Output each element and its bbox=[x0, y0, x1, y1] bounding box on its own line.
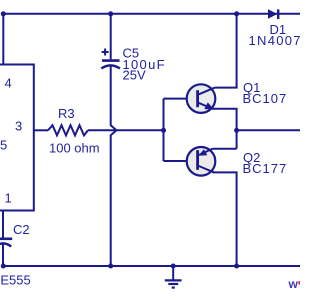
wire Q2 emitter lead bbox=[213, 148, 237, 150]
diode D1 1N4007 bbox=[268, 9, 278, 19]
svg-text:3: 3 bbox=[15, 119, 22, 134]
svg-text:1: 1 bbox=[5, 191, 12, 206]
ground symbol bbox=[172, 266, 174, 280]
node top-left bbox=[1, 11, 6, 16]
wire C2 vertical from pin 1 bbox=[2, 211, 4, 239]
svg-text:w: w bbox=[288, 277, 299, 291]
wire pin 3 lead bbox=[34, 129, 48, 131]
svg-text:BC107: BC107 bbox=[243, 91, 288, 106]
node Q1 collector top bbox=[234, 11, 239, 16]
wire bottom rail bbox=[3, 265, 300, 267]
node C5 bottom bbox=[108, 264, 113, 269]
wire R3 to base node bbox=[88, 129, 164, 131]
wire output node to right bbox=[237, 129, 300, 131]
svg-text:25V: 25V bbox=[123, 68, 146, 83]
node bottom left bbox=[1, 264, 6, 269]
svg-text:NE555: NE555 bbox=[0, 273, 31, 288]
svg-text:C2: C2 bbox=[13, 222, 30, 237]
IC U1 NE555 box bbox=[0, 65, 34, 211]
wire Q1 emitter to node bbox=[212, 109, 237, 149]
svg-text:4: 4 bbox=[5, 76, 12, 91]
svg-text:100 ohm: 100 ohm bbox=[49, 141, 100, 156]
svg-text:R3: R3 bbox=[58, 106, 75, 121]
node base bus bbox=[161, 128, 166, 133]
wire base bus vertical bbox=[163, 99, 165, 161]
node ground bbox=[171, 264, 176, 269]
node emitter output bbox=[234, 128, 239, 133]
wire C5 vertical with junction kink bbox=[110, 14, 112, 60]
svg-text:BC177: BC177 bbox=[243, 161, 288, 176]
svg-text:1N4007: 1N4007 bbox=[249, 33, 301, 48]
transistor Q2 BC177 (PNP) bbox=[187, 147, 216, 176]
wire Q2 collector to bottom rail bbox=[213, 172, 237, 266]
C5 plus sign bbox=[102, 51, 109, 53]
capacitor C2 plates bbox=[0, 238, 12, 241]
node C5 top bbox=[108, 11, 113, 16]
wire top rail bbox=[3, 13, 300, 15]
node Q2 collector bottom bbox=[234, 264, 239, 269]
wire Q1 base lead bbox=[164, 98, 197, 100]
wire left vertical to IC pin 4 bbox=[2, 14, 4, 65]
resistor R3 zigzag bbox=[48, 125, 88, 135]
wire Q1 collector to top rail bbox=[215, 14, 237, 88]
capacitor C5 plates bbox=[102, 59, 120, 62]
wire Q2 base lead bbox=[164, 160, 197, 162]
svg-text:5: 5 bbox=[0, 138, 7, 153]
transistor Q1 BC107 (NPN) bbox=[187, 84, 216, 113]
